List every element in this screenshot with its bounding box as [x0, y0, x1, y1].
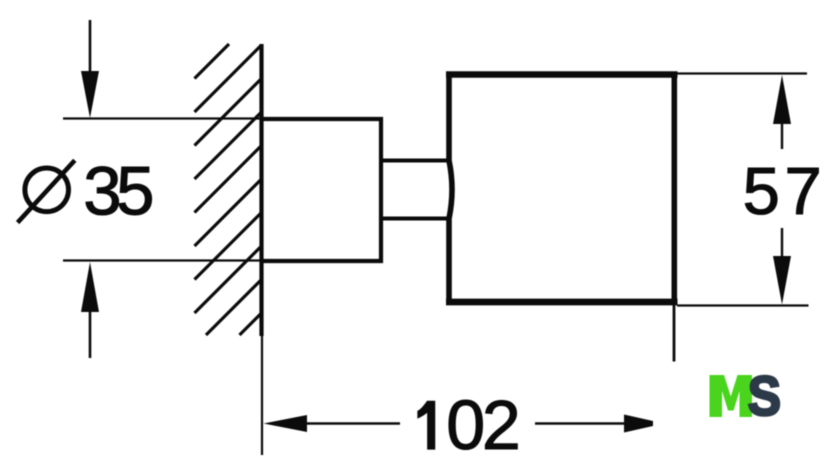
dim 102 left dimension line	[305, 422, 400, 425]
holder body	[446, 72, 678, 306]
dim 57 upper extension line	[676, 72, 807, 74]
svg-text:02: 02	[446, 386, 521, 464]
dim 57 upper arrowhead	[773, 75, 791, 124]
logo letter M	[710, 375, 753, 417]
dim 102 right dimension line	[535, 422, 625, 425]
svg-text:S: S	[748, 364, 781, 427]
dim 102 left arrowhead	[264, 415, 308, 432]
label 102	[418, 401, 435, 449]
dim Ø35 lower arrowhead	[81, 262, 99, 312]
dim 57 upper leader line	[781, 122, 783, 149]
dim Ø35 lower leader line	[89, 310, 92, 358]
wall-mount flange	[262, 119, 382, 261]
wall section line	[259, 44, 263, 336]
dim 57 lower leader line	[781, 228, 783, 258]
dim 57 lower extension line	[677, 304, 809, 306]
dim Ø35 upper extension line	[63, 117, 262, 119]
dim 102 right arrowhead	[624, 415, 653, 433]
dim 57 lower arrowhead	[773, 256, 791, 305]
diameter symbol Ø	[18, 160, 75, 222]
wall hatching	[195, 44, 262, 335]
svg-text:35: 35	[83, 152, 154, 229]
wall extension line (dim 102 left)	[261, 336, 263, 455]
dim Ø35 lower extension line	[63, 259, 262, 261]
connector stem	[381, 161, 449, 219]
dim 102 right extension line	[673, 300, 676, 362]
dim Ø35 upper leader line	[89, 20, 92, 73]
dim Ø35 upper arrowhead	[81, 71, 99, 118]
